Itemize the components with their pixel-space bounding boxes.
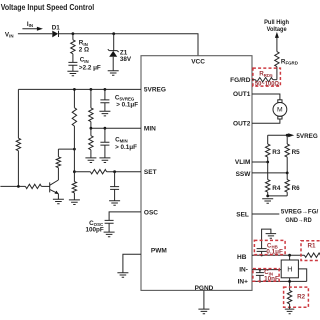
red box R2 [284, 287, 309, 307]
wire PGND stub [203, 290, 205, 309]
svg-text:Voltage: Voltage [267, 26, 287, 33]
capacitor COSC [105, 220, 114, 223]
ground CIN [67, 71, 78, 76]
wire MIN rail [91, 127, 141, 129]
resistor divider top (col B) [73, 89, 75, 107]
resistor base [25, 184, 41, 188]
svg-text:MIN: MIN [144, 125, 156, 132]
svg-text:R1: R1 [308, 242, 317, 249]
wire SSW [252, 172, 287, 174]
wire HB [252, 254, 304, 256]
hall sensor H1 [289, 255, 291, 260]
svg-text:5VREG→FG/: 5VREG→FG/ [281, 208, 319, 215]
resistor collector load [57, 149, 59, 157]
resistor R2 [287, 290, 291, 304]
wire divider bottom [268, 195, 288, 197]
wire collector link [58, 148, 74, 150]
ground COSC [104, 232, 115, 237]
svg-text:> 0.1μF: > 0.1μF [115, 144, 137, 151]
wire SET rail [74, 171, 90, 173]
capacitor CMIN [104, 127, 107, 130]
svg-text:M: M [277, 107, 283, 114]
svg-text:R3: R3 [272, 149, 281, 156]
svg-text:SSW: SSW [236, 171, 252, 178]
svg-text:GND→RD: GND→RD [285, 217, 312, 224]
svg-text:R5: R5 [292, 149, 301, 156]
svg-text:IIN: IIN [27, 21, 33, 28]
wire 5VREG rail [18, 88, 141, 90]
svg-text:OSC: OSC [144, 210, 158, 217]
wire IN+ [252, 280, 307, 282]
svg-text:R4: R4 [272, 185, 281, 192]
svg-text:RFGRD: RFGRD [281, 58, 298, 65]
svg-text:0.1μF: 0.1μF [266, 249, 283, 256]
wire PWM [123, 254, 141, 272]
node junction HB hall [288, 254, 291, 257]
wire OUT2 [252, 119, 280, 123]
ground col C [85, 158, 96, 163]
svg-text:CMIN: CMIN [115, 136, 128, 143]
ground PGND [198, 309, 209, 314]
capacitor SET [114, 172, 116, 187]
zener Z1 [113, 34, 115, 51]
wire VIN main [18, 34, 198, 56]
svg-text:H: H [287, 265, 292, 274]
resistor R6 [286, 173, 288, 180]
resistor MIN divider lower (col C) [90, 128, 92, 136]
ground Z1 [108, 71, 119, 76]
svg-text:38V: 38V [120, 56, 132, 63]
svg-text:OUT1: OUT1 [233, 91, 251, 98]
resistor to gnd (col B) [72, 182, 76, 193]
capacitor CIN [72, 54, 74, 63]
svg-text:PWM: PWM [151, 248, 167, 255]
resistor RFGRD [275, 52, 279, 67]
wire left column [17, 89, 19, 138]
svg-text:SEL: SEL [236, 211, 249, 218]
node junction Z1 [112, 32, 115, 35]
capacitor C5VREG [104, 88, 107, 91]
ground Q1 emitter [53, 199, 64, 204]
ground PWM [117, 273, 128, 278]
ground R2 [285, 309, 295, 314]
IC U1 fan motor driver body [141, 56, 252, 291]
node junction RIN [72, 32, 75, 35]
svg-text:50~100Ω: 50~100Ω [255, 81, 279, 88]
svg-text:IN-: IN- [239, 267, 248, 274]
svg-text:100pF: 100pF [85, 227, 103, 234]
svg-text:SET: SET [144, 169, 157, 176]
wire IN- [252, 269, 281, 271]
ground SET cap [109, 201, 120, 206]
wire OUT1 [252, 94, 280, 100]
svg-text:2 Ω: 2 Ω [79, 47, 89, 54]
svg-text:C5VREG: C5VREG [115, 94, 135, 101]
svg-text:VCC: VCC [191, 59, 205, 66]
svg-text:> 0.1μF: > 0.1μF [116, 102, 138, 109]
svg-text:VLIM: VLIM [235, 159, 251, 166]
capacitor CIN hall [259, 268, 261, 270]
ground CHB [266, 234, 277, 239]
svg-text:OUT2: OUT2 [233, 120, 251, 127]
wire OSC [109, 212, 141, 221]
svg-text:VIN: VIN [5, 31, 14, 38]
red box RRD5 [253, 68, 281, 86]
red box CHB [254, 240, 285, 254]
svg-text:RRD5: RRD5 [259, 71, 273, 78]
red box R1 [301, 241, 320, 261]
transistor Q1 [50, 180, 59, 194]
resistor R3 [267, 135, 269, 144]
svg-text:HB: HB [237, 254, 247, 261]
wire speed input [0, 185, 25, 187]
svg-text:R6: R6 [292, 185, 301, 192]
svg-text:10nF: 10nF [264, 276, 279, 283]
wire hall loop [298, 269, 306, 282]
ground col B [69, 200, 80, 205]
svg-text:>2.2 μF: >2.2 μF [79, 65, 101, 72]
capacitor CHB [260, 254, 262, 256]
wire VLIM [252, 161, 268, 163]
svg-text:R2: R2 [297, 294, 306, 301]
motor M1 [278, 100, 282, 103]
wire SEL [252, 213, 279, 215]
wire hall to R2 [289, 278, 291, 291]
svg-text:D1: D1 [52, 24, 61, 31]
resistor R5 [286, 135, 288, 144]
svg-text:IN+: IN+ [238, 279, 249, 286]
svg-text:CIN: CIN [80, 57, 89, 64]
svg-text:5VREG: 5VREG [144, 87, 166, 94]
resistor MIN divider upper (col C) [90, 88, 93, 91]
red box CIN hall [253, 269, 279, 282]
svg-text:Voltage Input Speed Control: Voltage Input Speed Control [1, 3, 95, 12]
ground CMIN [99, 158, 110, 163]
resistor RIN [72, 34, 74, 40]
ground C5VREG [99, 111, 110, 116]
ground divider [262, 199, 273, 204]
svg-text:5VREG: 5VREG [296, 133, 317, 140]
resistor R4 [267, 162, 269, 180]
wire 5VREG top rail right [268, 134, 290, 136]
wire pullup arrow [276, 36, 278, 51]
svg-text:FG/RD: FG/RD [230, 77, 251, 84]
